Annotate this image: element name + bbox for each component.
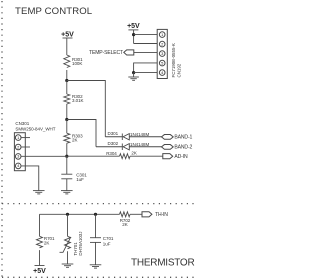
diode D301 1N4148M (105, 131, 161, 140)
svg-text:TEMP CONTROL: TEMP CONTROL (15, 6, 93, 17)
wire node B to R303 (66, 120, 68, 134)
wire C301 to ground (66, 179, 68, 191)
svg-text:SMW250-84V_WHT: SMW250-84V_WHT (15, 127, 55, 132)
svg-text:D302: D302 (108, 141, 119, 146)
svg-text:BAND-2: BAND-2 (174, 144, 192, 150)
svg-text:+5V: +5V (127, 23, 140, 30)
wire R701 to +5V (39, 250, 41, 265)
port TH-IN (142, 212, 168, 218)
svg-text:3.01K: 3.01K (72, 98, 84, 103)
resistor R303 2K (64, 133, 83, 143)
resistor R702 2K (120, 212, 131, 227)
wire R302 to node B (66, 104, 68, 120)
wire bus to C701 (95, 214, 97, 237)
diode D302 1N4148M (96, 141, 162, 150)
port BAND-1 (162, 134, 193, 140)
wire ground rail to CN192 pin5 (134, 63, 158, 73)
wire R303 to node C (66, 143, 68, 156)
ground (C701) (90, 265, 102, 268)
wire node C to C301 (66, 156, 68, 174)
wire CN301 pin1 stub (21, 137, 30, 139)
svg-text:TEMP-SELECT: TEMP-SELECT (89, 50, 123, 56)
node bus-C701 junction (94, 213, 97, 216)
svg-text:THERMISTOR: THERMISTOR (131, 258, 194, 269)
svg-text:DHT6A103J: DHT6A103J (78, 232, 83, 256)
svg-text:2K: 2K (122, 222, 127, 227)
node A junction (65, 79, 68, 82)
thermistor TH701 DHT6A103J (60, 232, 84, 256)
wire junction to ground (133, 73, 135, 77)
svg-text:TH-IN: TH-IN (155, 212, 168, 218)
resistor R304 2K (106, 150, 137, 158)
node C junction (65, 155, 68, 158)
svg-text:1N4148M: 1N4148M (130, 142, 149, 147)
svg-text:2K: 2K (72, 138, 77, 143)
wire +5V to CN192 pin1 (134, 34, 158, 36)
resistor R302 3.01K (64, 94, 84, 104)
ground (CN192) (128, 77, 139, 80)
wire node A to D301 branch (67, 81, 106, 137)
svg-text:+5V: +5V (33, 268, 46, 275)
ground (C301) (61, 191, 73, 194)
svg-text:2K: 2K (131, 150, 136, 155)
svg-text:1uF: 1uF (76, 177, 84, 182)
wire TEMP-SELECT to CN192 pin3 (134, 51, 157, 53)
wire main row node C to R304 (67, 155, 120, 157)
connector CN301 SMW250-04V_WHT (14, 121, 55, 171)
wire TH701 to ground (67, 251, 69, 264)
svg-text:BAND-1: BAND-1 (174, 134, 192, 140)
power +5V (CN192) (127, 23, 140, 44)
node bus-R701 corner (39, 214, 41, 236)
svg-text:D301: D301 (108, 131, 119, 136)
port BAND-2 (162, 144, 193, 150)
svg-text:1N4148M: 1N4148M (130, 132, 149, 137)
ground (TH701) (62, 264, 74, 267)
svg-text:2K: 2K (44, 240, 49, 245)
wire +5V to CN192 pin2 (134, 43, 158, 45)
node bus-TH701 junction (66, 213, 69, 216)
wire CN301 pin3 to main row (21, 155, 67, 157)
wire bus to TH701 (67, 214, 69, 236)
resistor R701 2K (37, 236, 56, 248)
capacitor C301 1uF (61, 173, 87, 182)
wire thermistor bus (40, 213, 120, 215)
connector CN192 FC7190E-0555-K (157, 29, 181, 78)
svg-text:R304: R304 (106, 151, 117, 156)
port AD-IN (163, 154, 188, 160)
wire C701 to ground (95, 242, 97, 264)
capacitor C701 1uF (90, 236, 114, 246)
wire to CN192 pin4 (134, 72, 158, 74)
wire R304 to AD-IN (130, 155, 162, 157)
svg-text:1uF: 1uF (103, 242, 111, 247)
node B junction (65, 118, 68, 121)
svg-text:+5V: +5V (61, 31, 74, 38)
wire node A to R302 (66, 81, 68, 95)
svg-text:FC7190E-0555-K: FC7190E-0555-K (171, 43, 176, 77)
wire CN301 pin4 to ground (21, 166, 39, 191)
wire R301 to node A (66, 70, 68, 81)
node +5V junction (132, 33, 135, 36)
node ground junction (132, 71, 135, 74)
svg-text:C701: C701 (103, 236, 114, 241)
wire CN301 pin2 stub (21, 146, 30, 148)
wire node B to D302 branch (67, 120, 96, 147)
svg-text:100K: 100K (72, 61, 82, 66)
port TEMP-SELECT (89, 50, 134, 56)
svg-text:AD-IN: AD-IN (174, 154, 188, 160)
power +5V (bottom) (33, 266, 46, 275)
svg-text:CN192: CN192 (177, 63, 182, 77)
svg-text:CN301: CN301 (15, 121, 29, 126)
ground (CN301 pin4) (33, 191, 45, 194)
power +5V (left rail) (61, 31, 74, 55)
wire R702 to TH-IN (130, 213, 142, 215)
resistor R301 100K (64, 55, 83, 68)
